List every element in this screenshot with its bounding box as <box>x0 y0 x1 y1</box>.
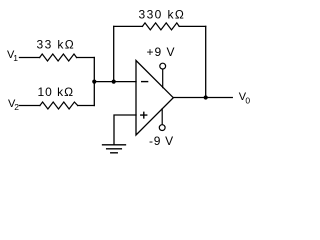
op-amp noninverting input plus sign <box>140 112 147 119</box>
wire V1 lead <box>20 57 40 59</box>
op-amp U1 triangle <box>136 61 173 136</box>
resistor 33 kOhm body <box>40 54 77 61</box>
wire feedback top left segment <box>114 25 143 27</box>
wire feedback left vertical <box>113 26 115 81</box>
wire summing node to inverting input <box>94 81 136 83</box>
op-amp inverting input minus sign <box>141 81 148 83</box>
op-amp positive supply terminal circle <box>160 63 166 69</box>
wire feedback right vertical <box>205 26 207 97</box>
resistor 10 kOhm body <box>40 102 78 109</box>
ground symbol <box>103 145 126 153</box>
wire output <box>173 97 232 99</box>
node summing junction <box>92 80 96 84</box>
node feedback tap junction <box>112 80 116 84</box>
svg-text:-9 V: -9 V <box>149 134 174 148</box>
wire V2 lead <box>20 105 40 107</box>
wire positive supply stub <box>162 69 164 87</box>
svg-text:2: 2 <box>14 102 19 112</box>
op-amp negative supply terminal circle <box>159 125 165 131</box>
svg-text:0: 0 <box>245 96 250 106</box>
svg-text:1: 1 <box>13 53 18 63</box>
wire 10k to summing node <box>78 105 95 107</box>
svg-text:+9 V: +9 V <box>147 45 176 59</box>
node output junction <box>204 95 208 99</box>
wire feedback top right segment <box>179 25 206 27</box>
resistor 330 kOhm body <box>142 23 179 30</box>
svg-text:33 kΩ: 33 kΩ <box>37 38 76 52</box>
svg-text:10 kΩ: 10 kΩ <box>38 85 75 99</box>
wire negative supply stub <box>161 109 163 125</box>
wire 33k to summing node <box>77 57 95 59</box>
wire V1 branch vertical <box>93 58 95 106</box>
wire noninverting input to ground <box>114 115 136 144</box>
svg-text:330 kΩ: 330 kΩ <box>139 8 186 22</box>
